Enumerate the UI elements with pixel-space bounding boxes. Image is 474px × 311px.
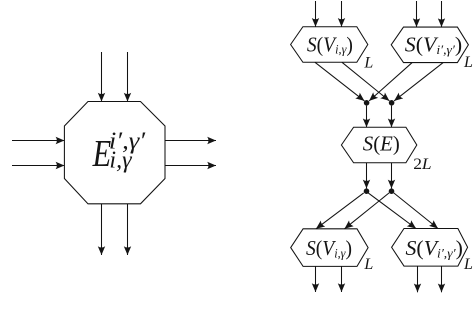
label L beside top-left hexagon	[363, 54, 373, 71]
hexagon S(E) middle	[341, 127, 416, 163]
junction dot 1	[364, 100, 370, 106]
svg-text:L: L	[463, 256, 473, 273]
label 2L beside middle hexagon	[413, 155, 431, 173]
wire: output arrow 2 from bottom-left hexagon	[341, 266, 343, 292]
junction dot 4	[389, 188, 395, 194]
wire: junction dot 2 into S(E)	[391, 106, 393, 128]
junction dot 2	[389, 100, 395, 106]
wire: top input arrow 2 into octagon	[127, 52, 129, 102]
wire: input arrow 2 into top-left hexagon	[341, 1, 343, 27]
svg-text:L: L	[463, 54, 473, 71]
wire: top-left hexagon port1 to junction dot 1	[315, 62, 364, 101]
octagon E (left diagram)	[64, 102, 165, 204]
wire: S(E) output to junction dot 4	[391, 163, 393, 189]
svg-text:S(Vi,γ): S(Vi,γ)	[306, 237, 352, 260]
wire: left input arrow 2 into octagon	[12, 165, 64, 167]
wire: right output arrow 1 from octagon	[165, 140, 216, 142]
wire: left input arrow 1 into octagon	[12, 140, 64, 142]
wire: bottom output arrow 2 from octagon	[127, 204, 129, 255]
hexagon S(V_i,gamma) bottom-left	[291, 229, 368, 267]
svg-text:L: L	[363, 256, 373, 273]
svg-text:S(Vi,γ): S(Vi,γ)	[307, 34, 353, 57]
wire: output arrow 1 from bottom-right hexagon	[417, 266, 419, 292]
hexagon S(V_i',gamma') bottom-right	[392, 229, 468, 267]
hexagon S(V_i',gamma') top-right	[391, 27, 468, 63]
label S(V_i,gamma) in top-left hexagon	[307, 34, 353, 57]
wire: top-right hexagon port1 to junction dot 1 (crossing)	[369, 63, 412, 101]
hexagon S(V_i,gamma) top-left	[291, 27, 368, 63]
wire: top-right hexagon port2 to junction dot 2	[394, 63, 443, 101]
svg-text:L: L	[363, 54, 373, 71]
wire: output arrow 1 from bottom-left hexagon	[315, 266, 317, 292]
junction dot 3	[364, 188, 370, 194]
wire: top-left hexagon port2 to junction dot 2 (crossing)	[342, 62, 389, 101]
label E_{i,gamma}^{i',gamma'} inside octagon	[92, 127, 146, 175]
svg-text:2L: 2L	[413, 155, 431, 173]
wire: bottom output arrow 1 from octagon	[101, 204, 103, 255]
wire: input arrow 1 into top-left hexagon	[315, 1, 317, 27]
wire: junction dot 4 to bottom-right hexagon port2	[394, 193, 438, 229]
wire: input arrow 1 into top-right hexagon	[416, 1, 418, 27]
svg-text:S(E): S(E)	[363, 133, 400, 156]
wire: output arrow 2 from bottom-right hexagon	[441, 266, 443, 292]
wire: top input arrow 1 into octagon	[101, 52, 103, 102]
wire: junction dot 4 to bottom-left hexagon port2 (crossing)	[345, 193, 390, 229]
label L beside bottom-left hexagon	[363, 256, 373, 273]
wire: right output arrow 2 from octagon	[165, 165, 216, 167]
label S(V_i,gamma) in bottom-left hexagon	[306, 237, 352, 260]
label S(V_i',gamma') in top-right hexagon	[405, 33, 462, 57]
wire: junction dot 3 to bottom-right hexagon port1 (crossing)	[368, 193, 416, 229]
label S(V_i',gamma') in bottom-right hexagon	[406, 236, 463, 260]
wire: junction dot 3 to bottom-left hexagon port1	[316, 193, 364, 229]
wire: input arrow 2 into top-right hexagon	[441, 1, 443, 27]
wire: S(E) output to junction dot 3	[366, 163, 368, 189]
label L beside bottom-right hexagon	[463, 256, 473, 273]
wire: junction dot 1 into S(E)	[366, 106, 368, 128]
svg-text:i,γ: i,γ	[109, 147, 132, 173]
label S(E) in middle hexagon	[363, 133, 400, 156]
label L beside top-right hexagon	[463, 54, 473, 71]
